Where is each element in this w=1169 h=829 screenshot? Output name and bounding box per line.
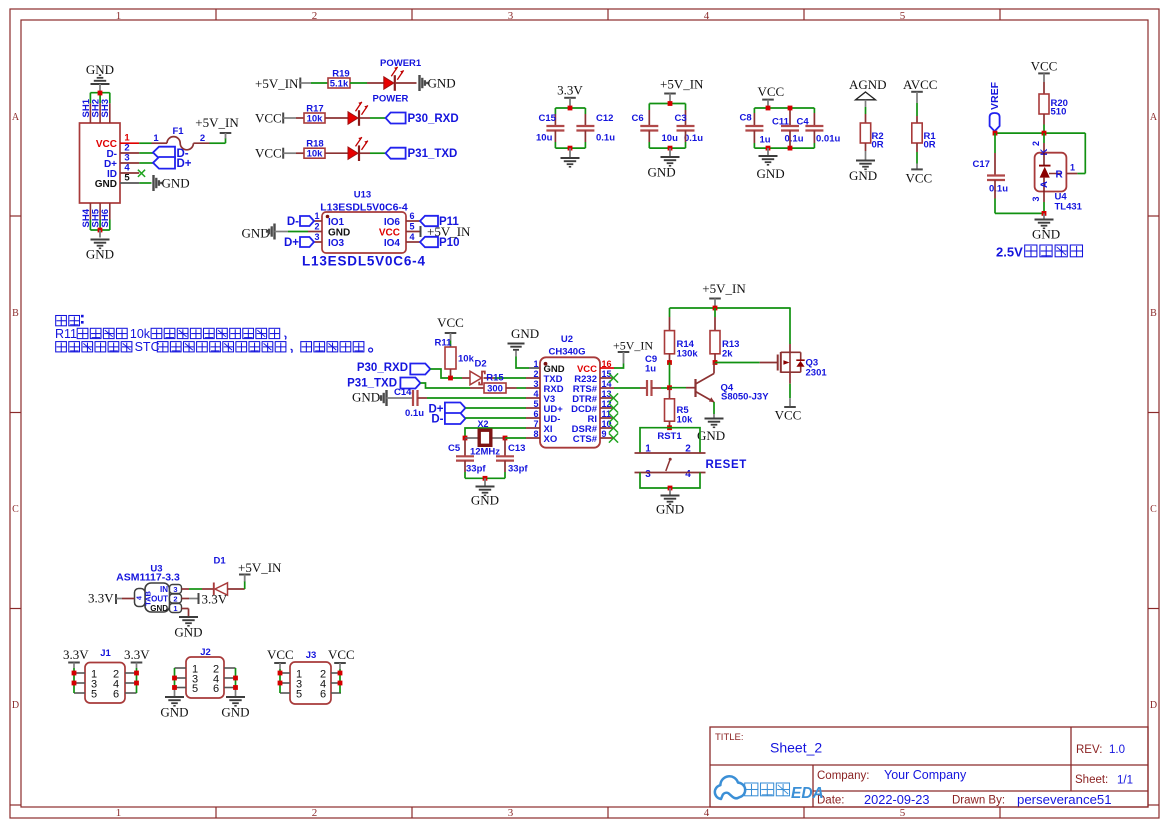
junction C11 bottom (788, 146, 793, 151)
GND power flag (USB shield bottom) (86, 230, 114, 262)
svg-text:C: C (1150, 504, 1157, 515)
wire Q3 source (789, 308, 791, 352)
power flag VCC (below R1) (906, 169, 933, 185)
svg-text:5.1k: 5.1k (330, 79, 349, 90)
net label RESET (706, 459, 747, 471)
no-connect ID pin4 (138, 170, 145, 177)
net label P10 (420, 237, 459, 249)
svg-text:S8050-J3Y: S8050-J3Y (721, 392, 769, 403)
svg-text:D+: D+ (284, 237, 299, 249)
svg-text:Sheet_2: Sheet_2 (770, 740, 822, 756)
capacitor C5 (448, 438, 486, 478)
svg-text:Drawn By:: Drawn By: (952, 795, 1005, 807)
svg-text:IO4: IO4 (384, 238, 401, 249)
GND power flag (C8 group) (757, 148, 785, 181)
label L13ESDL5V0C6-4 (302, 254, 426, 269)
GND power flag (R2) (849, 161, 877, 184)
svg-text:3: 3 (173, 585, 177, 594)
svg-text:GND: GND (242, 226, 270, 241)
svg-text:510: 510 (1051, 107, 1067, 118)
GND power flag (J2 right) (221, 697, 249, 720)
svg-text:C13: C13 (508, 443, 525, 454)
resistor R15 (484, 372, 506, 394)
wire R19 to LED (350, 82, 384, 84)
GND power flag (RST1) (656, 488, 684, 517)
svg-text:perseverance51: perseverance51 (1017, 792, 1112, 807)
junction rail (713, 306, 718, 311)
wire R18 to LED (325, 152, 348, 154)
junction J2 R1 (233, 676, 238, 681)
sheet text (1075, 774, 1133, 787)
svg-text:P30_RXD: P30_RXD (408, 113, 459, 125)
svg-text:POWER: POWER (373, 94, 409, 105)
svg-text:3.3V: 3.3V (63, 647, 89, 662)
net label P30_RXD (U2) (357, 362, 430, 375)
svg-text:3: 3 (314, 232, 319, 242)
svg-text:GND: GND (174, 625, 202, 640)
svg-text:6: 6 (533, 409, 538, 419)
junction R13 bottom (713, 360, 718, 365)
resistor R2 (860, 123, 883, 151)
resistor R5 (665, 399, 694, 426)
LED D7 (RXD) (348, 102, 368, 126)
junction J3 R2 (338, 681, 343, 686)
connector USB body (80, 98, 140, 227)
wire LED to P30_RXD (360, 117, 386, 119)
svg-text:B: B (1150, 308, 1157, 319)
junction C11 top (788, 106, 793, 111)
wire R11 to node (450, 369, 452, 378)
resistor R1 (912, 123, 937, 151)
svg-text:A: A (1039, 181, 1050, 188)
svg-text:2: 2 (173, 594, 177, 603)
power flag AVCC (903, 77, 937, 92)
junction RST1 bottom (668, 486, 673, 491)
svg-text:33pf: 33pf (466, 464, 486, 475)
svg-text:C15: C15 (539, 113, 557, 124)
svg-text:1: 1 (645, 444, 651, 455)
title text (715, 732, 822, 756)
wire C9 to node (652, 387, 670, 389)
wire Q3 drain (789, 372, 791, 406)
svg-text:OUT: OUT (151, 595, 168, 604)
ground (C15 group) (561, 148, 580, 167)
power flag +5V_IN (USB) (195, 115, 239, 139)
wire VREF node (995, 132, 1085, 134)
wire C8/C11/C4 bottom (754, 131, 814, 149)
svg-text:5: 5 (410, 222, 415, 232)
capacitor C11 (772, 117, 804, 145)
junction J3 R1 (338, 671, 343, 676)
svg-text:XO: XO (544, 434, 558, 445)
wire C15/C12 bottom (555, 131, 585, 149)
svg-text:9: 9 (602, 429, 607, 439)
svg-text:1: 1 (1070, 163, 1075, 173)
svg-text:1: 1 (153, 133, 159, 144)
svg-text:2301: 2301 (806, 368, 828, 379)
svg-text:5: 5 (900, 10, 906, 22)
wire node to C17 (994, 133, 996, 175)
junction J1 L2 (72, 681, 77, 686)
svg-text:0.1u: 0.1u (596, 133, 615, 144)
regulator U3 ASM1117-3.3 (116, 564, 181, 614)
wire rail to R14 (669, 308, 671, 331)
svg-text:7: 7 (533, 419, 538, 429)
IC U2 CH340G (526, 334, 614, 448)
GND power flag (crystal) (471, 478, 499, 507)
svg-text:VCC: VCC (1031, 59, 1058, 74)
svg-text:D: D (12, 700, 19, 711)
net label D- (U2) (431, 413, 465, 426)
svg-text:300: 300 (487, 384, 503, 395)
svg-text:B: B (12, 308, 19, 319)
svg-text:3.3V: 3.3V (88, 591, 114, 606)
capacitor C12 (576, 113, 615, 144)
wire VCC pin1 to fuse (139, 142, 167, 144)
svg-text:R: R (1056, 170, 1064, 181)
diode D1 (214, 556, 228, 596)
rev text (1076, 744, 1125, 756)
wire R14 bottom (669, 354, 671, 363)
GND power flag (U3) (174, 617, 202, 640)
svg-text:U13: U13 (354, 190, 371, 201)
wire R2 to GND (865, 143, 867, 160)
svg-text:4: 4 (410, 232, 415, 242)
wire C17 to bottom (995, 180, 1044, 213)
svg-text:130k: 130k (677, 349, 699, 360)
svg-text:2: 2 (314, 222, 319, 232)
svg-text:GND: GND (511, 326, 539, 341)
svg-text:0R: 0R (924, 140, 936, 151)
power flag +5V_IN (C6) (660, 77, 704, 104)
junction J2 R2 (233, 685, 238, 690)
wire D1 to +5V_IN (228, 581, 245, 589)
svg-text:D-: D- (431, 414, 443, 426)
net label D- (U13) (287, 216, 314, 228)
svg-text:C8: C8 (740, 113, 752, 124)
svg-text:D-: D- (287, 216, 299, 228)
capacitor C17 (973, 159, 1009, 195)
LED D8 (TXD) (348, 137, 368, 161)
svg-text:A: A (12, 112, 20, 123)
svg-text:GND: GND (471, 493, 499, 508)
junction J1 R2 (134, 681, 139, 686)
svg-text:GND: GND (1032, 227, 1060, 242)
svg-text:VCC: VCC (906, 171, 933, 186)
wire GND to U2 pin1 (516, 357, 540, 369)
power flag VCC (J3 right) (328, 647, 355, 669)
svg-text:STC: STC (135, 340, 160, 354)
wire U3 OUT to 3.3V (182, 598, 199, 600)
svg-text:3: 3 (645, 469, 651, 480)
svg-text:+5V_IN: +5V_IN (195, 115, 239, 130)
wire C8/C11/C4 top (754, 108, 814, 126)
wire R5 to RST1 (669, 421, 671, 428)
svg-text:VCC: VCC (267, 647, 294, 662)
power flag VCC (R17) (255, 111, 296, 126)
svg-text:VREF: VREF (989, 81, 1001, 110)
wire fuse to +5V_IN (210, 138, 226, 143)
wire C6/C3 top (649, 104, 685, 127)
svg-text:IO1: IO1 (328, 217, 345, 228)
svg-text:P10: P10 (439, 237, 459, 249)
svg-text:D2: D2 (475, 359, 487, 370)
power flag VCC (R11) (437, 315, 464, 341)
svg-text:GND: GND (757, 166, 785, 181)
GND power flag (USB pin5) (154, 175, 190, 191)
junction C15 top (568, 106, 573, 111)
svg-text:4: 4 (685, 469, 691, 480)
svg-text:VCC: VCC (255, 111, 282, 126)
capacitor C15 (536, 113, 564, 144)
svg-text:REV:: REV: (1076, 744, 1102, 756)
svg-text:3: 3 (508, 807, 514, 819)
svg-text:P30_RXD: P30_RXD (357, 362, 408, 374)
junction C8 top (766, 106, 771, 111)
GND power flag (U2 pin1) (508, 326, 540, 357)
svg-text:1: 1 (116, 807, 122, 819)
svg-text:J1: J1 (100, 648, 111, 659)
connector J2 (175, 647, 236, 698)
svg-text:6: 6 (320, 688, 326, 700)
svg-text:GND: GND (648, 165, 676, 180)
svg-text:10k: 10k (307, 149, 324, 160)
svg-text:12MHz: 12MHz (470, 447, 500, 458)
svg-text:D1: D1 (214, 556, 227, 567)
capacitor C9 (645, 354, 657, 396)
wire R20 to node (1043, 114, 1045, 133)
junction crystal gnd (483, 476, 488, 481)
capacitor C14 (394, 387, 424, 419)
svg-text:SH3: SH3 (100, 99, 111, 117)
power flag VCC (Q3) (775, 407, 802, 423)
svg-text:GND: GND (656, 502, 684, 517)
op-amp U4 TL431 body (1035, 149, 1083, 213)
power flag VCC (R18) (255, 146, 296, 161)
junction C6 top (668, 101, 673, 106)
svg-text:3: 3 (1031, 197, 1041, 202)
junction shield bottom (98, 228, 103, 233)
net label P31_TXD (U2) (347, 377, 420, 389)
junction X2 right (503, 436, 508, 441)
wire U2 pin7 to X2 (465, 428, 526, 438)
svg-text:1u: 1u (760, 135, 771, 146)
svg-text:3: 3 (508, 10, 514, 22)
net label P11 (420, 216, 459, 228)
wire R13 bottom (714, 354, 716, 363)
svg-text:GND: GND (328, 227, 350, 238)
svg-text:8: 8 (533, 429, 538, 439)
GND power flag (C6 group) (648, 148, 680, 179)
junction C6 bottom (668, 146, 673, 151)
net label D+ (U13) (284, 237, 314, 249)
svg-text:0.1u: 0.1u (989, 184, 1008, 195)
svg-text:RST1: RST1 (657, 431, 682, 442)
wire J1 right (136, 668, 138, 693)
svg-text:33pf: 33pf (508, 464, 528, 475)
diode D2 (schottky) (470, 359, 487, 385)
wire crystal gnd (465, 477, 505, 479)
wire R15 to U2 pin3 (506, 387, 526, 389)
power flag 3.3V (U3 out) (199, 592, 228, 607)
title block table (710, 727, 1148, 807)
power flag +5V_IN (R19) (255, 76, 311, 91)
svg-text:IN: IN (160, 585, 168, 594)
svg-text:1: 1 (116, 10, 122, 22)
svg-text:2: 2 (1031, 141, 1041, 146)
svg-text:C17: C17 (973, 159, 990, 170)
svg-text:10k: 10k (677, 415, 694, 426)
svg-text:0.1u: 0.1u (785, 134, 804, 145)
wire U2 pin16 to +5V_IN (614, 364, 624, 369)
wire TL431 pin1 (1066, 133, 1085, 173)
svg-text:GND: GND (150, 604, 168, 613)
svg-text:Sheet:: Sheet: (1075, 774, 1108, 786)
wire D- pin2 (139, 152, 153, 154)
wire D2 to U2 pin2 (484, 377, 527, 379)
power flag 3.3V (U3 tab) (88, 591, 135, 606)
resistor R19 (328, 69, 350, 90)
svg-text:4: 4 (704, 807, 710, 819)
svg-text:CH340G: CH340G (549, 346, 586, 357)
svg-text:1u: 1u (645, 364, 656, 375)
wire C14 to U2 pin4 (418, 397, 527, 399)
wire D+ pin3 (139, 162, 153, 164)
wire shield bottom (90, 220, 109, 231)
svg-text:AGND: AGND (849, 77, 887, 92)
svg-text:D: D (1150, 700, 1157, 711)
wire node to Q4 base (670, 387, 696, 389)
junction RST1 top (667, 425, 672, 430)
wire R1 to VCC (916, 143, 918, 169)
switch RST1 (635, 428, 706, 488)
svg-text:ASM1117-3.3: ASM1117-3.3 (116, 572, 180, 584)
svg-text:IO3: IO3 (328, 238, 345, 249)
wire +5V_IN to R19 (311, 82, 328, 84)
junction VREF (993, 131, 998, 136)
svg-text:2: 2 (533, 369, 538, 379)
svg-text:EDA: EDA (791, 785, 824, 802)
svg-text:R11: R11 (55, 327, 77, 341)
svg-text:0.01u: 0.01u (816, 134, 840, 145)
svg-text:Company:: Company: (817, 770, 869, 782)
svg-text:+5V_IN: +5V_IN (660, 77, 704, 92)
svg-text:10k: 10k (307, 114, 324, 125)
svg-text:VCC: VCC (758, 84, 785, 99)
net label P31_TXD (LED row) (386, 148, 458, 161)
power flag 3.3V (J1 right) (124, 647, 150, 668)
svg-text:CTS#: CTS# (573, 434, 598, 445)
label 2.5V reference voltage (996, 245, 1083, 260)
junction base node (667, 385, 672, 390)
junction J3 L1 (278, 671, 283, 676)
svg-text:5: 5 (192, 683, 198, 695)
svg-text:J3: J3 (306, 650, 317, 661)
svg-text:5: 5 (296, 688, 302, 700)
capacitor C3 (675, 113, 704, 144)
power flag VCC (R20) (1031, 59, 1058, 83)
wire R13 to Q3 gate (715, 362, 778, 364)
power flag +5V_IN (U13 pin5) (421, 224, 472, 239)
svg-text:4: 4 (533, 389, 538, 399)
svg-text:GND: GND (162, 176, 190, 191)
svg-text:10u: 10u (536, 133, 553, 144)
svg-text:Your Company: Your Company (884, 768, 967, 782)
svg-text:VCC: VCC (328, 647, 355, 662)
wire C15/C12 top (555, 108, 585, 126)
svg-text:0.1u: 0.1u (405, 408, 424, 419)
junction R11/D2 (448, 376, 453, 381)
svg-text:5: 5 (900, 807, 906, 819)
wire shield top (90, 93, 109, 104)
date text (817, 792, 1112, 807)
svg-text:+5V_IN: +5V_IN (255, 76, 299, 91)
wire U3 GND (182, 609, 189, 617)
power flag 3.3V (C15) (557, 83, 583, 109)
GND power flag (C14) (352, 390, 387, 407)
svg-text:4: 4 (704, 10, 710, 22)
svg-text:D+: D+ (177, 158, 192, 170)
resistor R14 (665, 331, 699, 360)
svg-text:C14: C14 (394, 387, 412, 398)
svg-text:L13ESDL5V0C6-4: L13ESDL5V0C6-4 (302, 254, 426, 269)
power flag AGND (849, 77, 887, 100)
GND power flag (J2 left) (160, 697, 188, 720)
resistor R13 (710, 331, 739, 360)
svg-text:TITLE:: TITLE: (715, 732, 744, 743)
svg-text:10k: 10k (130, 327, 151, 341)
svg-text:3.3V: 3.3V (202, 592, 228, 607)
svg-text:2k: 2k (722, 349, 733, 360)
svg-text:A: A (1150, 112, 1158, 123)
svg-text:TL431: TL431 (1055, 202, 1083, 213)
svg-text:GND: GND (849, 168, 877, 183)
fuse F1 (153, 126, 209, 150)
connector J3 (280, 650, 341, 704)
svg-text:GND: GND (160, 705, 188, 720)
wire R5 top (669, 388, 671, 399)
junction C15 bottom (568, 146, 573, 151)
svg-text:F1: F1 (172, 126, 184, 137)
junction R20 bottom (1042, 131, 1047, 136)
capacitor C8 (740, 113, 771, 146)
GND power flag (Q4) (697, 419, 725, 444)
svg-text:3: 3 (533, 379, 538, 389)
svg-text:C12: C12 (596, 113, 613, 124)
GND power flag (POWER1) (420, 75, 456, 91)
wire TL431 pin2 (1031, 133, 1044, 153)
svg-text:0.1u: 0.1u (684, 133, 703, 144)
transistor Q3 2301 (778, 352, 828, 379)
svg-text:1: 1 (533, 359, 538, 369)
svg-text:AVCC: AVCC (903, 77, 937, 92)
connector J1 (74, 648, 137, 703)
wire LED to GND (396, 82, 417, 84)
wire J2 left (174, 668, 176, 697)
capacitor C13 (496, 438, 528, 478)
crystal X2 (465, 419, 505, 458)
svg-text:POWER1: POWER1 (380, 58, 422, 69)
resistor R18 (296, 139, 325, 160)
svg-text:5: 5 (533, 399, 538, 409)
svg-text:6: 6 (410, 211, 415, 221)
wire J1 left (73, 668, 75, 693)
transistor Q4 S8050 (696, 363, 770, 403)
svg-text:GND: GND (352, 390, 380, 405)
svg-text:P31_TXD: P31_TXD (347, 377, 397, 389)
svg-text:4: 4 (137, 596, 144, 600)
power flag VCC (J3 left) (267, 647, 294, 669)
